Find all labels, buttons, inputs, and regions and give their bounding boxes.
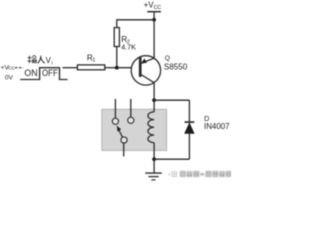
svg-text:CC: CC xyxy=(8,65,15,70)
switch common contact xyxy=(121,137,127,143)
wire switch common lead xyxy=(123,143,125,156)
wire switch left terminal xyxy=(114,99,116,118)
svg-text:0V: 0V xyxy=(5,75,14,82)
svg-text:1: 1 xyxy=(92,58,95,64)
wire R1 to base node xyxy=(105,67,117,69)
transistor Q1 emitter arrow (PNP) xyxy=(141,59,147,64)
resistor R1 body xyxy=(77,65,104,70)
diode D triangle xyxy=(184,122,194,134)
wire bottom rail to diode xyxy=(154,158,189,160)
diode D cathode bar xyxy=(185,121,195,123)
resistor R2 body xyxy=(114,28,119,47)
svg-text:ON: ON xyxy=(24,67,37,78)
svg-text:S8550: S8550 xyxy=(164,63,188,72)
power VCC bar symbol xyxy=(147,11,161,13)
switch lever arm xyxy=(119,130,123,137)
wire dashed VCC level line xyxy=(15,67,23,69)
node VCC supply label text xyxy=(144,1,162,12)
wire VCC stem xyxy=(153,12,155,20)
svg-text:Q: Q xyxy=(165,55,170,62)
watermark text blobs xyxy=(180,171,231,177)
inductor relay coil xyxy=(148,112,154,143)
wire R2 top lead xyxy=(116,19,118,27)
svg-text:4.7K: 4.7K xyxy=(121,42,136,51)
node collector junction dot xyxy=(152,98,156,102)
wire diode branch bottom xyxy=(188,134,190,160)
wire switch right terminal xyxy=(130,99,132,117)
label R2 xyxy=(121,35,130,45)
wire collector node to diode branch xyxy=(154,99,189,101)
transistor Q1 circle xyxy=(131,56,160,85)
wire diode branch top xyxy=(188,100,190,122)
wire top rail to R2 xyxy=(117,19,154,21)
svg-text:CC: CC xyxy=(154,5,162,11)
label +VCC left level xyxy=(1,65,16,72)
wire base lead xyxy=(117,67,139,69)
transistor Q1 collector diagonal xyxy=(141,75,154,83)
relay body box xyxy=(102,109,167,150)
switch contact left xyxy=(112,118,118,124)
wire collector vertical xyxy=(153,83,155,101)
watermark logo square xyxy=(169,171,231,177)
wire R2 bottom lead to base node xyxy=(116,47,118,68)
wire relay coil bottom lead xyxy=(153,143,155,160)
transistor Q1 emitter diagonal xyxy=(141,58,154,63)
node ground junction dot xyxy=(152,157,156,161)
svg-text:OFF: OFF xyxy=(42,67,58,78)
waveform input pulse xyxy=(20,68,67,80)
label R1 xyxy=(87,53,96,63)
wire relay coil top lead xyxy=(153,100,155,112)
wire emitter vertical from VCC xyxy=(153,20,155,59)
svg-text:i: i xyxy=(52,60,53,66)
wire input to R1 xyxy=(63,67,78,69)
svg-text:IN4007: IN4007 xyxy=(204,122,230,131)
transistor Q1 base bar xyxy=(139,57,142,77)
node junction dot at VCC rail xyxy=(152,18,156,22)
switch contact right xyxy=(128,117,134,123)
ground symbol xyxy=(145,159,162,180)
label input Vi (Chinese: shu ru V i) xyxy=(27,55,44,63)
switch lever arrow xyxy=(117,126,121,132)
node base junction dot xyxy=(115,66,119,70)
